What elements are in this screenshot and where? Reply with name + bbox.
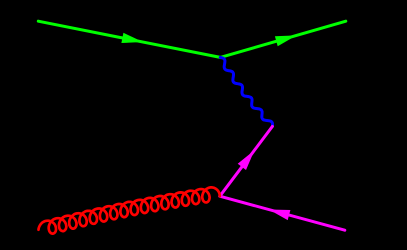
fermion line f3 (magenta, vertex C up to vertex B) [220, 126, 273, 196]
arrow on f2 [275, 35, 297, 46]
fermion line f4 (magenta, incoming from lower-right to vertex C) [220, 196, 345, 230]
arrow on f1 [121, 33, 143, 43]
arrow on f4 [269, 210, 291, 221]
fermion line f2 (outgoing, green, upper-right) [220, 21, 345, 57]
gluon g1 (red curly, lower-left to vertex C) [39, 187, 220, 233]
boson propagator V1 (blue wavy, vertex A to vertex B) [220, 57, 272, 126]
fermion line f1 (incoming, green, upper-left) [38, 21, 220, 57]
arrow on f3 [238, 150, 255, 170]
